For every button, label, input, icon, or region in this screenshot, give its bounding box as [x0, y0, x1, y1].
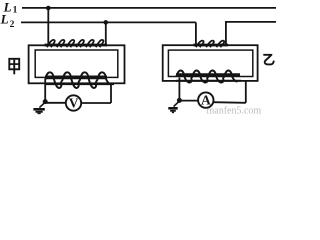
label 乙: [263, 55, 274, 65]
node L2 label: [0, 12, 15, 30]
wire voltmeter to right lead: [81, 102, 111, 104]
transformer T2 core inner rectangle: [168, 50, 252, 76]
wire dot to ammeter: [179, 100, 198, 102]
transformer T1 core inner rectangle: [35, 50, 118, 77]
node junction dot on L1: [46, 6, 51, 11]
svg-text:1: 1: [13, 6, 18, 16]
svg-text:manfen5.com: manfen5.com: [207, 105, 262, 116]
ground symbol left: [33, 102, 45, 113]
wire 乙 secondary right lead up: [245, 81, 247, 103]
wire 甲 secondary left lead down: [44, 80, 46, 102]
coil 乙 primary winding: [194, 41, 229, 48]
coil 甲 primary winding: [45, 40, 108, 47]
node L1 label: [3, 0, 18, 16]
transformer T2 core outer rectangle: [163, 45, 258, 81]
wire L2 line left segment: [21, 21, 196, 23]
transformer T1 core outer rectangle: [29, 45, 125, 83]
wire L1 drop to 甲 primary left lead: [47, 8, 49, 45]
ground symbol right: [168, 101, 179, 112]
wire dot to voltmeter: [45, 102, 66, 104]
svg-text:V: V: [69, 96, 79, 111]
wire 乙 secondary left lead down: [178, 78, 180, 101]
node junction dot on L2: [104, 20, 109, 25]
svg-text:2: 2: [10, 20, 15, 30]
coil 甲 secondary winding with loops: [45, 72, 114, 88]
label 甲: [9, 59, 19, 75]
wire L1 line: [22, 7, 276, 9]
node junction dot at 甲 secondary left: [43, 99, 48, 104]
wire vertical from L2 corner to 乙 primary left lead: [195, 22, 197, 44]
coil 乙 secondary winding with loops: [176, 71, 241, 83]
svg-text:L: L: [0, 12, 9, 27]
voltmeter V1: [66, 95, 81, 110]
wire 甲 secondary right lead up: [110, 84, 112, 104]
ammeter A1: [198, 92, 213, 107]
node junction dot at 乙 secondary left: [177, 98, 182, 103]
wire L2 right segment with corner down to transformer 乙 primary: [226, 22, 276, 45]
wire L2 drop to 甲 primary right lead: [105, 22, 107, 44]
wire ammeter to right lead: [213, 101, 246, 104]
